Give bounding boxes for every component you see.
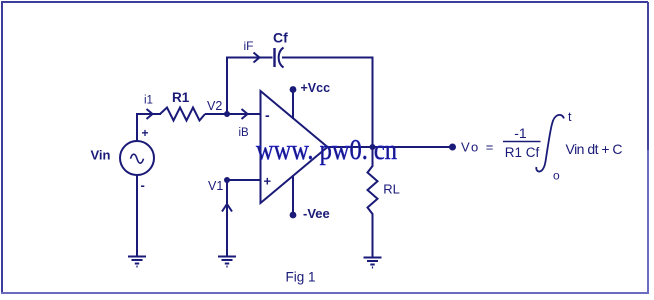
svg-text:Vo =: Vo = <box>461 140 495 155</box>
svg-text:iB: iB <box>239 127 250 139</box>
svg-text:-Vee: -Vee <box>303 206 330 221</box>
svg-text:iF: iF <box>244 39 254 53</box>
svg-text:R1 Cf: R1 Cf <box>505 145 540 160</box>
svg-text:Cf: Cf <box>273 30 288 46</box>
svg-text:-: - <box>141 178 145 193</box>
svg-text:t: t <box>568 110 572 124</box>
svg-text:RL: RL <box>383 182 400 197</box>
svg-text:o: o <box>553 169 560 183</box>
svg-text:-: - <box>265 107 270 123</box>
svg-text:www. pw0. cn: www. pw0. cn <box>256 135 397 166</box>
svg-text:+Vcc: +Vcc <box>301 81 331 95</box>
svg-text:V1: V1 <box>208 179 223 193</box>
svg-text:Fig 1: Fig 1 <box>286 270 316 285</box>
svg-text:+: + <box>142 126 149 140</box>
svg-text:V2: V2 <box>207 99 222 113</box>
svg-text:Vin: Vin <box>91 148 111 163</box>
svg-text:+: + <box>264 174 272 189</box>
svg-text:Vin dt + C: Vin dt + C <box>566 141 623 157</box>
svg-text:R1: R1 <box>172 90 190 105</box>
svg-text:-1: -1 <box>514 125 527 141</box>
svg-text:i1: i1 <box>144 95 153 107</box>
